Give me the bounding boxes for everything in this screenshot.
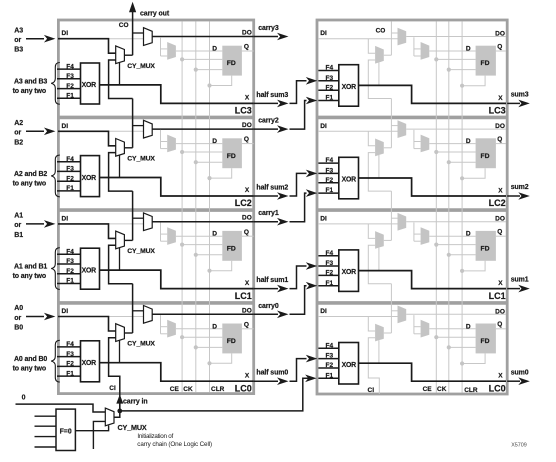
- carry mux CY_MUX gray (LC0 right): [375, 324, 384, 342]
- wire+node: CLR line (LC2 right): [462, 168, 485, 178]
- wire: Q output line (LC2 left): [242, 143, 254, 145]
- svg-text:LC2: LC2: [489, 198, 506, 208]
- wire: DI gray jog to CY_MUX (LC2 right): [368, 131, 375, 146]
- wire: CY_MUX select stub from XOR (LC0 left): [119, 340, 121, 363]
- svg-text:F1: F1: [326, 280, 334, 287]
- wire: XOR output to X (LC0 right): [359, 363, 507, 381]
- wire: XOR output to X (LC3 left): [100, 85, 254, 104]
- wire: DI to CY_MUX input (LC2 left): [58, 131, 116, 146]
- wire: hook carry1 to right LC2 F1: [290, 193, 307, 222]
- wire: DO output line (LC1 left): [152, 221, 254, 223]
- carry mux CY_MUX gray (LC3 right): [375, 46, 384, 64]
- wire: DO mux connector gray (LC3 right): [391, 32, 397, 34]
- svg-text:F3: F3: [66, 351, 74, 358]
- svg-text:XOR: XOR: [342, 84, 357, 91]
- inactive function mux (LC2 right): [421, 135, 430, 153]
- wire+node: CK line (LC2 left): [196, 161, 223, 163]
- wire+node: CE line (LC0 left): [182, 336, 222, 338]
- wire+label F4 input (LC0 right): [318, 347, 338, 349]
- svg-text:F2: F2: [326, 177, 334, 184]
- svg-text:F1: F1: [326, 187, 334, 194]
- svg-text:CLR: CLR: [211, 386, 225, 393]
- svg-text:to any two: to any two: [13, 180, 46, 187]
- flip-flop FD (LC1 left): [222, 231, 242, 261]
- svg-text:CI: CI: [368, 387, 375, 394]
- wire: XOR output to X (LC2 right): [359, 178, 507, 196]
- svg-text:CI: CI: [109, 385, 116, 392]
- wire: DO mux connector from carry node (LC1 left): [133, 217, 144, 219]
- wire: CY_MUX output (LC2 left): [124, 147, 132, 149]
- svg-text:FD: FD: [227, 153, 236, 160]
- wire: XOR output to X (LC1 right): [359, 271, 507, 289]
- svg-text:A0: A0: [14, 305, 23, 312]
- DO output mux gray (LC3 right): [398, 28, 407, 46]
- wire: hook half sum3 to right LC3 F3: [290, 81, 307, 104]
- flip-flop FD (LC3 left): [222, 46, 242, 76]
- wire: A1/B1 input arrow into DI (LC1): [26, 223, 44, 225]
- wire+node: CK line (LC3 left): [196, 69, 223, 71]
- wire: DI gray jog to CY_MUX (LC3 right): [368, 39, 375, 54]
- svg-text:F1: F1: [66, 370, 74, 377]
- wire: DO mux connector from carry node (LC3 left): [133, 32, 144, 34]
- wire+label F3 input (LC2 left): [57, 170, 81, 172]
- svg-text:DO: DO: [242, 30, 252, 37]
- svg-text:FD: FD: [227, 60, 236, 67]
- wire+node: CK line (LC2 right): [449, 161, 476, 163]
- XOR gate box (LC2 left): [81, 156, 100, 197]
- svg-text:LC3: LC3: [489, 106, 506, 116]
- XOR gate box (LC0 left): [81, 341, 100, 382]
- wire+label F4 input (LC3 left): [57, 68, 81, 70]
- left logic-cell block outer frame: [58, 20, 253, 394]
- svg-text:F2: F2: [66, 83, 74, 90]
- wire: constant 0 into init CY_MUX: [16, 404, 106, 412]
- wire: F=0 branch to init CY_MUX input: [93, 421, 105, 449]
- wire+label F1 input (LC2 left): [57, 190, 81, 192]
- carry mux CY_MUX gray (LC1 right): [375, 231, 384, 249]
- wire+node: CE line (LC3 right): [436, 58, 475, 60]
- svg-text:A1: A1: [14, 213, 23, 220]
- svg-text:FD: FD: [227, 338, 236, 345]
- wire: F=0 input stub 4: [35, 446, 57, 448]
- carry mux CY_MUX gray (LC2 right): [375, 139, 384, 157]
- wire+label F3 input (LC0 left): [57, 356, 81, 358]
- svg-text:F3: F3: [326, 260, 334, 267]
- svg-text:carry1: carry1: [258, 210, 279, 217]
- wire+node: CK line (LC3 right): [449, 69, 476, 71]
- svg-text:CLR: CLR: [464, 387, 478, 394]
- svg-text:F2: F2: [66, 361, 74, 368]
- wire+label F2 input (LC2 right): [318, 182, 338, 184]
- svg-text:F4: F4: [66, 156, 74, 163]
- svg-text:XOR: XOR: [82, 82, 97, 89]
- wire: sum2 output arrow (LC2 right): [507, 195, 520, 197]
- left column CE rail: [181, 22, 183, 393]
- wire: DO mux connector gray (LC1 right): [391, 217, 397, 219]
- svg-text:LC1: LC1: [489, 291, 506, 301]
- svg-text:Q: Q: [244, 44, 249, 51]
- gray tap from DO line (LC3 left): [160, 37, 162, 56]
- svg-text:DI: DI: [62, 30, 69, 37]
- wire: DO mux connector from carry node (LC2 left): [133, 125, 144, 127]
- wire+node: CE line (LC2 right): [436, 151, 475, 153]
- wire: CY_MUX gray output (LC2 right): [384, 147, 392, 149]
- wire: gray carry vertical (LC1 right): [390, 191, 392, 240]
- carry out arrowhead: [129, 2, 136, 13]
- wire+node: CE line (LC1 right): [436, 244, 475, 246]
- svg-text:X: X: [245, 187, 250, 194]
- inactive function mux (LC1 right): [421, 227, 430, 245]
- svg-text:F4: F4: [66, 249, 74, 256]
- svg-text:CY_MUX: CY_MUX: [118, 423, 147, 432]
- gray tap from DO line (LC2 left): [160, 130, 162, 149]
- wire: A2/B2 input arrow into DI (LC2): [26, 130, 44, 132]
- wire: Q gray line (LC1 right): [496, 235, 506, 237]
- wire: carry input jog from cell below (LC2 left): [109, 153, 133, 192]
- svg-text:F1: F1: [66, 185, 74, 192]
- F=0 function box: [56, 409, 75, 450]
- flip-flop FD (LC3 right): [476, 46, 496, 76]
- svg-text:F4: F4: [326, 250, 334, 257]
- svg-text:B3: B3: [14, 47, 23, 54]
- right logic-cell block outer frame: [317, 20, 507, 394]
- wire+label F2 input (LC1 right): [318, 274, 338, 276]
- wire: DI inactive continuation (LC0 left): [109, 316, 144, 318]
- DO output mux (LC3 left): [144, 28, 153, 46]
- svg-text:DO: DO: [495, 216, 505, 223]
- wire+label F4 input (LC2 left): [57, 161, 81, 163]
- carry mux CY_MUX (LC1 left): [116, 231, 125, 249]
- svg-text:Q: Q: [497, 229, 502, 236]
- svg-text:X: X: [498, 373, 503, 380]
- flip-flop FD (LC1 right): [476, 231, 496, 261]
- svg-text:carry0: carry0: [258, 303, 279, 310]
- wire: gray carry jog (LC3 right): [368, 60, 391, 99]
- wire+label F1 input (LC0 right): [318, 377, 338, 379]
- svg-text:F2: F2: [326, 270, 334, 277]
- DO output mux gray (LC0 right): [398, 306, 407, 324]
- wire+node: CK line (LC1 right): [449, 254, 476, 256]
- svg-text:sum0: sum0: [511, 369, 529, 376]
- wire: carry1 output arrow (LC1 left): [254, 221, 278, 223]
- inactive function mux (LC2 left): [167, 135, 176, 153]
- wire: gray carry vertical (LC3 right): [390, 22, 392, 56]
- wire: F=0 input stub 1: [35, 415, 57, 417]
- wire+label F2 input (LC2 left): [57, 180, 81, 182]
- inactive function mux (LC3 left): [167, 42, 176, 60]
- svg-text:to any two: to any two: [13, 366, 46, 373]
- svg-text:XOR: XOR: [82, 267, 97, 274]
- wire: sum3 output arrow (LC3 right): [507, 102, 520, 104]
- wire: XOR output to X (LC3 right): [359, 85, 507, 103]
- flip-flop FD (LC0 right): [476, 324, 496, 354]
- svg-text:A2: A2: [14, 120, 23, 127]
- svg-text:carry out: carry out: [140, 10, 170, 17]
- svg-text:CO: CO: [376, 28, 386, 35]
- wire+node: CLR line (LC3 left): [210, 76, 232, 86]
- svg-text:LC1: LC1: [235, 291, 252, 301]
- wire: carry chain vertical from LC2 up to cell above: [132, 99, 134, 148]
- wire+label F2 input (LC0 right): [318, 367, 338, 369]
- svg-text:sum2: sum2: [511, 184, 529, 191]
- svg-text:X: X: [245, 280, 250, 287]
- right column CLR rail: [461, 22, 463, 393]
- svg-text:carry chain (One Logic Cell): carry chain (One Logic Cell): [137, 441, 212, 448]
- svg-text:X5709: X5709: [511, 442, 527, 448]
- wire+label F3 input (LC1 right): [318, 265, 338, 267]
- flip-flop FD (LC0 left): [222, 324, 242, 354]
- svg-text:0: 0: [22, 394, 26, 401]
- DO output mux (LC2 left): [144, 120, 153, 138]
- svg-text:half sum3: half sum3: [256, 92, 288, 99]
- XOR gate box (LC1 left): [81, 248, 100, 289]
- svg-text:A3 and B3: A3 and B3: [14, 78, 47, 85]
- wire+label F1 input (LC2 right): [318, 192, 338, 194]
- svg-text:half sum2: half sum2: [256, 185, 288, 192]
- svg-text:DI: DI: [320, 30, 327, 37]
- svg-text:XOR: XOR: [342, 269, 357, 276]
- svg-text:F4: F4: [66, 341, 74, 348]
- wire: D input line (LC1 right): [429, 235, 475, 237]
- wire+label F3 input (LC1 left): [57, 263, 81, 265]
- wire: CY_MUX gray select stub (LC0 right): [378, 340, 380, 363]
- svg-text:XOR: XOR: [342, 177, 357, 184]
- wire: CY_MUX output (LC1 left): [124, 239, 132, 241]
- wire+label F4 input (LC1 left): [57, 253, 81, 255]
- left block cell separator bar 1: [58, 116, 253, 120]
- init carry mux CY_MUX: [105, 408, 114, 426]
- wire: CY_MUX gray select stub (LC2 right): [378, 155, 380, 178]
- svg-text:Q: Q: [244, 136, 249, 143]
- wire: Q gray line (LC2 right): [496, 143, 506, 145]
- svg-text:or: or: [14, 315, 21, 322]
- right column CK rail: [448, 22, 450, 393]
- gray tap from DO line (LC2 right): [413, 130, 415, 149]
- wire: DI to CY_MUX input (LC0 left): [58, 317, 116, 332]
- wire: DO mux connector gray (LC2 right): [391, 125, 397, 127]
- wire: D input line (LC0 left): [176, 328, 222, 330]
- svg-text:DO: DO: [495, 31, 505, 38]
- wire: carry chain vertical from LC1 up to cell above: [132, 191, 134, 240]
- wire: CY_MUX select stub from XOR (LC2 left): [119, 155, 121, 178]
- wire: DO output line (LC3 left): [152, 36, 254, 38]
- wire+label F1 input (LC3 right): [318, 100, 338, 102]
- wire: hook half sum2 to right LC2 F3: [290, 173, 307, 196]
- svg-text:F1: F1: [66, 278, 74, 285]
- wire: Q output line (LC1 left): [242, 235, 254, 237]
- svg-text:CE: CE: [423, 386, 433, 393]
- wire: half sum3 output arrow (LC3 left): [254, 102, 278, 104]
- svg-text:B2: B2: [14, 139, 23, 146]
- svg-text:CO: CO: [119, 22, 129, 29]
- wire: sum0 output arrow (LC0 right): [507, 380, 520, 382]
- right column CE rail: [435, 22, 437, 393]
- wire: DI gray line (LC0 right): [318, 316, 398, 318]
- flip-flop FD (LC2 right): [476, 138, 496, 168]
- inactive function mux (LC1 left): [167, 227, 176, 245]
- svg-text:DI: DI: [320, 123, 327, 130]
- wire: hook carry0 to right LC1 F1: [290, 286, 307, 315]
- wire+label F3 input (LC2 right): [318, 172, 338, 174]
- svg-text:A1 and B1: A1 and B1: [14, 264, 47, 271]
- svg-text:LC0: LC0: [235, 383, 252, 393]
- svg-text:CK: CK: [183, 386, 193, 393]
- brace for A0 and B0 inputs (LC0): [51, 340, 60, 382]
- wire+node: CE line (LC3 left): [182, 58, 222, 60]
- carry mux CY_MUX (LC3 left): [116, 46, 125, 64]
- XOR gate box (LC2 right): [339, 157, 359, 199]
- wire+label F4 input (LC0 left): [57, 346, 81, 348]
- wire: DO gray output line (LC1 right): [406, 221, 506, 223]
- wire: Q gray line (LC3 right): [496, 50, 506, 52]
- inactive function mux (LC0 left): [167, 320, 176, 338]
- wire+node: CE line (LC1 left): [182, 244, 222, 246]
- svg-text:half sum0: half sum0: [256, 370, 288, 377]
- svg-text:D: D: [212, 138, 217, 145]
- svg-text:LC2: LC2: [235, 198, 252, 208]
- svg-text:carry2: carry2: [258, 118, 279, 125]
- wire: carry0 output arrow (LC0 left): [254, 313, 278, 315]
- wire: D input line (LC0 right): [429, 328, 475, 330]
- DO output mux (LC1 left): [144, 213, 153, 231]
- svg-text:A3: A3: [14, 27, 23, 34]
- wire: DO mux connector gray (LC0 right): [391, 310, 397, 312]
- wire: CY_MUX select stub from XOR (LC1 left): [119, 248, 121, 271]
- svg-text:F3: F3: [66, 258, 74, 265]
- DO output mux (LC0 left): [144, 306, 153, 324]
- wire+node: CLR line (LC1 left): [210, 261, 232, 271]
- wire+label F3 input (LC3 left): [57, 78, 81, 80]
- wire: init carry to right LC0 F1: [120, 378, 310, 411]
- svg-text:carry in: carry in: [123, 398, 148, 405]
- wire: gray carry jog from CI (LC0 right): [368, 338, 379, 394]
- svg-text:F3: F3: [326, 75, 334, 82]
- DO output mux gray (LC2 right): [398, 120, 407, 138]
- gray tap from DO line (LC0 right): [413, 315, 415, 334]
- svg-text:D: D: [212, 231, 217, 238]
- svg-text:F2: F2: [326, 362, 334, 369]
- wire: half sum1 output arrow (LC1 left): [254, 288, 278, 290]
- brace for A1 and B1 inputs (LC1): [51, 248, 60, 290]
- svg-text:Q: Q: [497, 321, 502, 328]
- wire+node: CLR line (LC3 right): [462, 76, 485, 86]
- wire: F=0 input stub 3: [35, 436, 57, 438]
- wire+label F2 input (LC0 left): [57, 365, 81, 367]
- XOR gate box (LC3 right): [339, 65, 359, 107]
- svg-text:to any two: to any two: [13, 88, 46, 95]
- svg-text:to any two: to any two: [13, 273, 46, 280]
- svg-text:DI: DI: [320, 308, 327, 315]
- wire: DI to CY_MUX input (LC1 left): [58, 224, 116, 239]
- wire: DO gray output line (LC3 right): [406, 36, 506, 38]
- wire: CY_MUX gray output (LC0 right): [384, 332, 392, 334]
- wire: Q gray line (LC0 right): [496, 328, 506, 330]
- wire: carry chain vertical from LC0 up to cell above: [132, 284, 134, 333]
- svg-text:CY_MUX: CY_MUX: [127, 63, 155, 70]
- svg-text:X: X: [245, 95, 250, 102]
- svg-text:B0: B0: [14, 325, 23, 332]
- left block cell separator bar 3: [58, 301, 253, 305]
- svg-text:DO: DO: [242, 215, 252, 222]
- wire: Q output line (LC0 left): [242, 328, 254, 330]
- left column CLR rail: [209, 22, 211, 393]
- XOR gate box (LC1 right): [339, 250, 359, 292]
- wire: XOR output to X (LC0 left): [100, 363, 254, 382]
- wire: hook half sum0 to right LC0 F3: [290, 359, 307, 382]
- wire: XOR output to X (LC1 left): [100, 270, 254, 289]
- wire: gray carry jog (LC2 right): [368, 153, 391, 192]
- svg-text:D: D: [466, 323, 471, 330]
- wire+label F1 input (LC1 left): [57, 283, 81, 285]
- svg-text:F3: F3: [66, 73, 74, 80]
- svg-text:DO: DO: [495, 123, 505, 130]
- left block cell separator bar 2: [58, 208, 253, 212]
- svg-text:CY_MUX: CY_MUX: [127, 341, 155, 348]
- svg-text:F=0: F=0: [60, 429, 72, 436]
- svg-text:FD: FD: [481, 60, 490, 67]
- wire: half sum2 output arrow (LC2 left): [254, 195, 278, 197]
- wire: gray carry vertical (LC0 right): [390, 284, 392, 333]
- wire: D input line (LC2 left): [176, 143, 222, 145]
- svg-text:CY_MUX: CY_MUX: [127, 248, 155, 255]
- XOR gate box (LC3 left): [81, 63, 100, 104]
- svg-text:carry3: carry3: [258, 25, 279, 32]
- svg-text:CE: CE: [170, 386, 180, 393]
- wire: init CY_MUX output to carry-in node: [114, 411, 120, 417]
- wire: carry-out vertical to CO (LC3 left): [132, 6, 134, 55]
- wire: CY_MUX gray output (LC3 right): [384, 54, 392, 56]
- wire: D input line (LC3 left): [176, 50, 222, 52]
- svg-text:Q: Q: [497, 43, 502, 50]
- wire: DI gray line (LC1 right): [318, 223, 398, 225]
- wire+label F1 input (LC3 left): [57, 97, 81, 99]
- svg-text:DO: DO: [495, 308, 505, 315]
- wire: carry input jog from cell below (LC3 left): [109, 60, 133, 99]
- wire+label F3 input (LC0 right): [318, 358, 338, 360]
- wire: XOR output to X (LC2 left): [100, 178, 254, 197]
- wire: DI to CY_MUX input (LC3 left): [58, 39, 116, 54]
- wire: CY_MUX select stub from XOR (LC3 left): [119, 62, 121, 85]
- svg-text:X: X: [498, 280, 503, 287]
- wire: CY_MUX gray output (LC1 right): [384, 239, 392, 241]
- wire: gray carry jog (LC1 right): [368, 245, 391, 284]
- wire: Q output line (LC3 left): [242, 50, 254, 52]
- node: carry-in junction dot: [117, 409, 122, 414]
- wire: carry in arrow up into CI: [119, 403, 121, 411]
- svg-text:F4: F4: [326, 157, 334, 164]
- carry mux CY_MUX (LC2 left): [116, 139, 125, 157]
- svg-text:Q: Q: [244, 321, 249, 328]
- wire: sum1 output arrow (LC1 right): [507, 288, 520, 290]
- wire: DO gray output line (LC0 right): [406, 313, 506, 315]
- svg-text:or: or: [14, 37, 21, 44]
- DO output mux gray (LC1 right): [398, 213, 407, 231]
- wire: D input line (LC3 right): [429, 50, 475, 52]
- svg-text:Q: Q: [497, 136, 502, 143]
- wire: hook half sum1 to right LC1 F3: [290, 266, 307, 289]
- svg-text:XOR: XOR: [342, 362, 357, 369]
- svg-text:X: X: [245, 372, 250, 379]
- svg-text:F3: F3: [66, 166, 74, 173]
- svg-text:LC0: LC0: [489, 383, 506, 393]
- wire: hook carry2 to right LC3 F1: [290, 101, 307, 130]
- wire: DI inactive continuation (LC1 left): [109, 223, 144, 225]
- wire: A3/B3 input arrow into DI (LC3): [26, 38, 44, 40]
- wire: CY_MUX output (LC0 left): [124, 332, 132, 334]
- svg-text:F2: F2: [66, 175, 74, 182]
- svg-text:F1: F1: [326, 95, 334, 102]
- svg-text:F2: F2: [66, 268, 74, 275]
